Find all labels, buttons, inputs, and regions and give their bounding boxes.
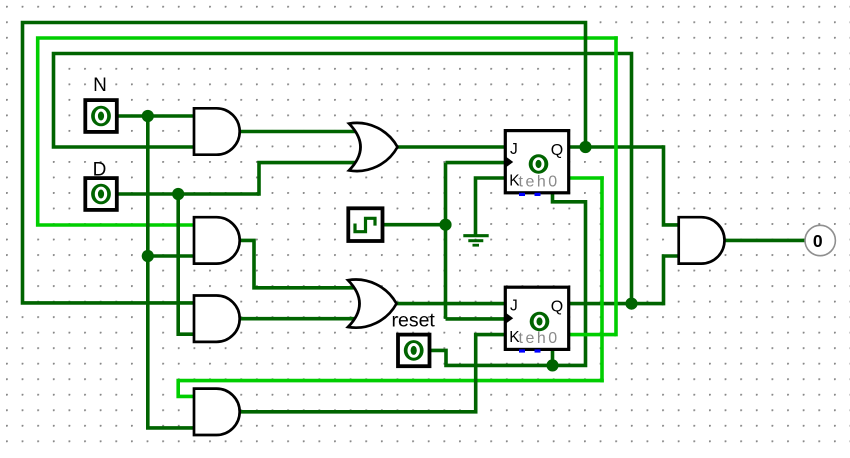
- wire: clock riser: [444, 163, 448, 319]
- junction N to AND2: [142, 250, 154, 262]
- wire: reset pin to junction under FF2: [430, 350, 553, 365]
- input pin D box: [85, 178, 117, 210]
- svg-text:0: 0: [813, 231, 823, 251]
- wire: FF1 Q drop to AND5 input A: [664, 145, 680, 225]
- and-gate U4: [194, 389, 240, 435]
- jk-flip-flop U9 (FF2): [505, 287, 568, 349]
- ground symbol: [463, 236, 488, 246]
- wire bright: FF1 Q-bar stub east: [569, 176, 604, 180]
- clock pin: [348, 208, 382, 241]
- wire bright: riser of FF2 Q-bar net to top run: [614, 36, 618, 336]
- or-gate U7 (OR2): [348, 280, 397, 328]
- input pin N box: [85, 100, 117, 132]
- svg-text:D: D: [93, 159, 107, 180]
- input pin reset box: [398, 335, 430, 367]
- FF2 floating enable stub: [535, 349, 541, 352]
- junction on D wire: [172, 188, 184, 200]
- wire: FF1 Q feedback loop via top to AND3 input A: [23, 23, 586, 303]
- wire: FF2 Q output east: [569, 302, 664, 306]
- wire bright: top run to AND2 input A: [38, 38, 618, 225]
- svg-text:Q: Q: [551, 299, 563, 316]
- wire bright: lower run to AND4 input A (logic 1): [178, 381, 604, 397]
- wire: N riser down left of gates: [146, 116, 150, 428]
- svg-text:J: J: [510, 141, 518, 158]
- junction reset: [546, 359, 558, 371]
- wire: OR2 output to FF2 J input: [396, 302, 506, 306]
- wire: AND2 output jog down to OR2 input A: [240, 240, 357, 287]
- wire: D riser to AND3 input B: [178, 194, 195, 334]
- wire: AND1 output to OR1 input A: [240, 130, 358, 134]
- wire: FF1 K to ground: [476, 178, 506, 236]
- FF1 floating preset stub: [519, 193, 525, 196]
- and-gate U5 (output stage): [679, 217, 725, 263]
- output pin: [805, 225, 835, 255]
- value 0 of pin N: [91, 106, 111, 127]
- wire: N pin to AND1 input A: [117, 114, 195, 118]
- jk-flip-flop U8 (FF1): [505, 131, 568, 193]
- wire: reset around to FF1 reset pin: [553, 193, 586, 366]
- FF2 clock triangle: [505, 312, 513, 324]
- FF1 floating enable stub: [535, 193, 541, 196]
- wire: AND3 output to OR2 input B: [241, 317, 357, 321]
- junction clock: [439, 219, 451, 231]
- value 0 of pin D: [91, 184, 111, 205]
- and-gate U3: [194, 296, 240, 342]
- and-gate U1 (N AND FF2.Q): [194, 108, 240, 154]
- wire: AND4 output up to FF2 K input: [241, 335, 506, 412]
- wire bright: riser of FF1 Q-bar net: [600, 176, 604, 382]
- wire: OR1 output to FF1 J input: [397, 145, 506, 149]
- wire: N branch to AND4 input B: [146, 426, 195, 430]
- FF2 state value 0: [530, 312, 550, 332]
- svg-text:Q: Q: [551, 142, 563, 159]
- wire: N branch to AND2 input B: [148, 254, 195, 258]
- junction on N wire: [142, 110, 154, 122]
- FF2 floating preset stub: [519, 349, 525, 352]
- svg-text:teh0: teh0: [519, 173, 560, 190]
- wire: clock pin to junction: [383, 223, 446, 227]
- or-gate U6 (OR1): [349, 123, 398, 171]
- wire: FF2 Q up to AND5 input B: [664, 256, 680, 305]
- wire: D pin east: [117, 192, 259, 196]
- value 0 of pin reset: [404, 340, 424, 361]
- wire: clock to FF2 clk: [446, 317, 506, 321]
- wire: FF1 Q output east: [569, 145, 664, 149]
- svg-text:J: J: [510, 298, 518, 315]
- wire: AND5 output to output pin: [724, 239, 807, 243]
- svg-text:N: N: [93, 75, 107, 96]
- svg-text:teh0: teh0: [519, 330, 560, 347]
- svg-text:reset: reset: [392, 309, 436, 331]
- wire: FF2 Q feedback loop via top to AND1 input B: [54, 54, 632, 304]
- wire: clock to FF1 clk: [446, 161, 506, 165]
- junction FF1 Q: [579, 141, 591, 153]
- wire: D up to OR1 input B: [259, 163, 357, 196]
- wire bright: FF2 Q-bar east run: [569, 333, 616, 337]
- and-gate U2 (bright AND N): [194, 217, 240, 263]
- FF1 state value 0: [529, 154, 549, 174]
- FF1 clock triangle: [505, 156, 513, 168]
- junction FF2 Q: [625, 298, 637, 310]
- wire: reset junction up into FF2 reset pin: [551, 349, 555, 365]
